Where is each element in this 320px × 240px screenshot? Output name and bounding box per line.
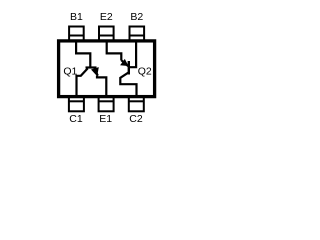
pin E1 (bottom-middle pin box) bbox=[99, 97, 114, 112]
svg-text:B2: B2 bbox=[130, 11, 143, 23]
svg-text:C1: C1 bbox=[69, 113, 83, 125]
wire E2 to Q2 emitter bbox=[107, 41, 122, 60]
transistor Q1 emitter lead bbox=[94, 69, 98, 76]
svg-text:E2: E2 bbox=[100, 11, 113, 23]
transistor Q1 emitter arrowhead (NPN, pointing away from base) bbox=[91, 67, 99, 76]
wire Q1 emitter to E1 bbox=[97, 76, 106, 96]
transistor Q2 emitter lead bbox=[121, 60, 128, 66]
pin B1 (top-left pin box) bbox=[69, 27, 84, 42]
transistor Q2 collector lead + wire to C2 bbox=[120, 73, 136, 96]
wire B2 to Q2 base bbox=[130, 41, 136, 67]
transistor Q2 (PNP) base bar bbox=[128, 61, 130, 75]
transistor Q2 emitter arrowhead (PNP, pointing toward base) bbox=[120, 59, 129, 66]
pin E2 (top-middle pin box) bbox=[99, 27, 114, 42]
transistor Q1 collector lead + wire to C1 bbox=[77, 68, 88, 96]
transistor Q1 (NPN) base bar bbox=[86, 66, 97, 68]
svg-text:Q2: Q2 bbox=[138, 65, 152, 77]
wire B1 to Q1 base bbox=[76, 41, 90, 67]
pin C1 (bottom-left pin box) bbox=[69, 97, 84, 112]
pin B2 (top-right pin box) bbox=[130, 27, 145, 42]
svg-text:B1: B1 bbox=[70, 11, 83, 23]
package body U1 (SOT-363 outline) bbox=[59, 41, 155, 97]
svg-text:E1: E1 bbox=[99, 113, 112, 125]
svg-text:C2: C2 bbox=[129, 113, 143, 125]
pin C2 (bottom-right pin box) bbox=[129, 97, 144, 112]
